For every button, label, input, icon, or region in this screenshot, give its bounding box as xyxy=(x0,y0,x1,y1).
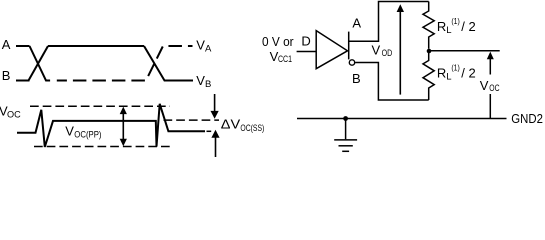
svg-text:V: V xyxy=(196,37,205,52)
wire top plateau solid xyxy=(48,45,144,47)
wire VOC waveform trace xyxy=(17,104,205,147)
svg-text:OD: OD xyxy=(382,48,393,59)
wire dashed low run rising to VA xyxy=(57,46,193,81)
wire rising edge solid B-to-high xyxy=(29,46,49,81)
wire output stub vertical xyxy=(348,32,350,60)
svg-text:(1): (1) xyxy=(451,63,460,73)
svg-text:L: L xyxy=(446,25,451,36)
svg-text:B: B xyxy=(2,68,11,83)
guide dashed line VOC peak bottom xyxy=(34,146,171,148)
svg-text:ΔV: ΔV xyxy=(221,117,241,132)
wire falling edge solid to VB level xyxy=(144,46,193,81)
svg-text:A: A xyxy=(352,16,361,31)
measure arrow VOC up with broken line to GND2 xyxy=(487,52,494,119)
wire GND2 rail xyxy=(297,118,507,120)
resistor RL/2 top xyxy=(423,2,434,49)
wire output A to load top xyxy=(349,2,429,42)
svg-text:V: V xyxy=(65,124,74,139)
wire B input stub xyxy=(16,80,30,82)
svg-text:OC: OC xyxy=(7,109,21,120)
guide dashed line VOC steady-state high xyxy=(164,119,220,121)
measure arrow VOD up xyxy=(397,4,404,94)
svg-text:GND2: GND2 xyxy=(511,111,543,126)
inverting bubble on B output xyxy=(349,60,354,65)
svg-text:L: L xyxy=(446,72,451,83)
resistor RL/2 bottom xyxy=(423,51,434,100)
junction node dot xyxy=(427,49,432,54)
wire A input stub xyxy=(16,45,30,47)
svg-text:B: B xyxy=(352,71,361,86)
svg-text:CC1: CC1 xyxy=(278,54,292,65)
svg-text:V: V xyxy=(480,78,489,93)
svg-text:A: A xyxy=(2,37,11,52)
op-amp driver triangle xyxy=(316,31,347,69)
svg-text:A: A xyxy=(205,43,212,54)
wire D input xyxy=(297,51,317,53)
svg-text:B: B xyxy=(205,79,211,90)
svg-text:D: D xyxy=(301,34,310,49)
label RL(1)/2 top xyxy=(437,16,476,36)
wire falling edge solid A-to-low xyxy=(30,46,51,81)
svg-text:R: R xyxy=(437,19,446,34)
svg-text:OC: OC xyxy=(489,83,499,94)
label RL(1)/2 bottom xyxy=(437,63,476,83)
svg-text:OC(SS): OC(SS) xyxy=(240,123,264,134)
guide dash piece VOC steady-state low xyxy=(207,130,212,132)
svg-text:0 V or: 0 V or xyxy=(262,34,294,49)
svg-text:OC(PP): OC(PP) xyxy=(74,130,101,141)
measure arrow down to steady-state high xyxy=(211,94,219,119)
svg-text:V: V xyxy=(372,43,381,58)
svg-text:(1): (1) xyxy=(451,16,460,26)
wire node to VOC tap xyxy=(429,50,500,52)
measure arrow up to steady-state low xyxy=(211,130,219,157)
guide dashed line VOC peak top xyxy=(30,105,170,107)
svg-text:V: V xyxy=(196,73,205,88)
svg-text:R: R xyxy=(437,66,446,81)
ground symbol xyxy=(334,119,357,152)
svg-text:/ 2: / 2 xyxy=(461,66,475,81)
measure arrow VOC(PP) double-headed xyxy=(120,107,127,147)
wire output B to load bottom xyxy=(355,63,429,101)
junction dot on rail xyxy=(343,116,348,121)
svg-text:/ 2: / 2 xyxy=(461,19,475,34)
